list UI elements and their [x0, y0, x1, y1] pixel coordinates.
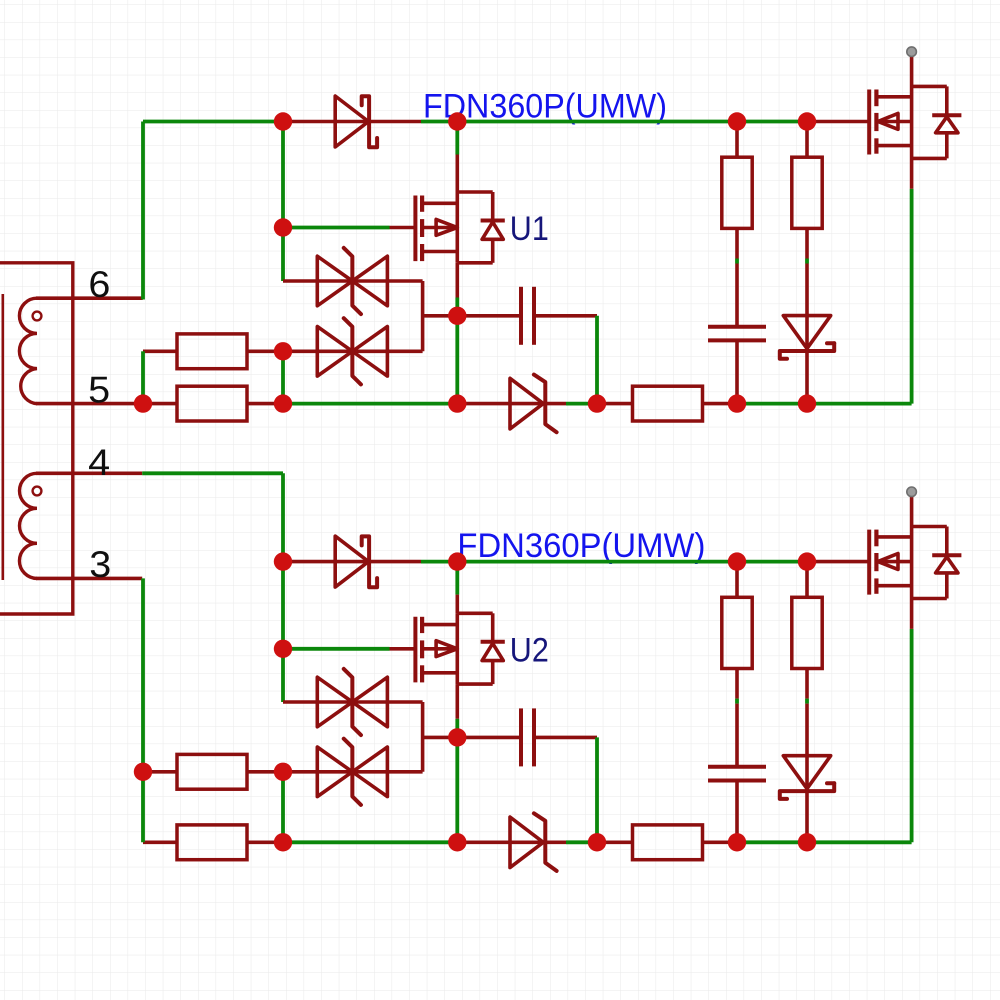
zener diode DZ2 cathode pin — [546, 840, 567, 844]
wire rail to resistor column 1 — [457, 120, 737, 124]
capacitor C2a — [521, 708, 534, 766]
polarity dot of secondary winding — [33, 487, 42, 496]
resistor R2b — [177, 825, 247, 860]
mosfet U2 designator — [510, 631, 549, 669]
capacitor C2b top pin — [735, 704, 739, 767]
zener diode DZ2 — [510, 813, 557, 871]
node TVS2b resistor junction — [274, 763, 292, 781]
power mosfet Q1 — [869, 56, 961, 189]
label FDN360P(UMW) part name 1 — [423, 88, 667, 126]
pin 3 label — [89, 543, 111, 585]
diode D1a pin (anode) — [283, 120, 335, 124]
wire gate node to mosfet U1 — [283, 226, 390, 230]
node rail2 main junction — [448, 552, 466, 570]
power mosfet Q1 gate pin — [807, 120, 869, 124]
node bottom row mid junction — [448, 833, 466, 851]
zener diode DZ1b top pin — [805, 264, 809, 316]
resistor R2b left pin — [143, 840, 177, 844]
node bottom row left junction — [274, 833, 292, 851]
capacitor C2b bottom pin — [735, 781, 739, 843]
resistor R2e — [792, 597, 822, 668]
wire bottom row to right riser — [807, 840, 912, 844]
mosfet U2 drain pin — [455, 595, 459, 614]
wire right riser vertical — [910, 629, 914, 842]
p-mosfet U2 — [415, 613, 504, 684]
resistor R2c right pin — [703, 840, 738, 844]
TVS Z2a right pin — [387, 700, 422, 704]
wire right riser vertical — [910, 189, 914, 404]
wire diode to net node — [421, 120, 457, 124]
bidirectional TVS Z1b — [317, 318, 387, 384]
short wire stub — [805, 259, 809, 264]
capacitor C1a right pin — [534, 314, 597, 318]
TVS Z1b right pin — [387, 349, 422, 353]
diode D2a pin (anode) — [283, 560, 335, 564]
resistor R1e — [792, 157, 822, 228]
zener diode DZ1 cathode pin — [546, 402, 567, 406]
mosfet U2 gate pin — [390, 647, 416, 651]
mosfet U1 source pin — [455, 263, 459, 298]
resistor R1d bottom pin — [735, 228, 739, 258]
resistor R1d top pin — [735, 122, 739, 158]
mosfet U1 drain pin — [455, 155, 459, 193]
node bottom row cap junction — [588, 833, 606, 851]
pin 4 lead — [36, 471, 142, 475]
wire rail resistor1 to resistor2 — [737, 120, 807, 124]
node bottom row at cap column — [728, 833, 746, 851]
wire TVS2 node down to bottom row — [281, 772, 285, 843]
schottky diode D1a — [335, 96, 377, 147]
resistor R2b right pin — [247, 840, 283, 844]
capacitor C1b — [708, 327, 766, 341]
mosfet Q2 drain terminal dot — [907, 487, 917, 497]
mosfet Q1 drain terminal dot — [907, 47, 917, 57]
resistor R2a right pin — [247, 770, 283, 774]
wire mosfet source to tap node — [455, 298, 459, 316]
capacitor C1b bottom pin — [735, 340, 739, 403]
resistor R1c right pin — [703, 402, 738, 406]
svg-text:3: 3 — [89, 543, 111, 585]
node bottom row left junction — [274, 394, 292, 412]
wire tap node down to bottom row — [455, 316, 459, 404]
resistor R1d — [722, 157, 752, 228]
wire diode to net node — [421, 560, 457, 564]
resistor R1b left pin — [143, 402, 177, 406]
wire bottom row cap column to zener column — [737, 840, 807, 844]
resistor R1b — [177, 386, 247, 421]
wire rail down to gate node — [281, 122, 285, 228]
transformer T1 outline box — [0, 263, 73, 614]
wire bottom row to right riser — [807, 402, 912, 406]
transformer primary winding (pins 6-5) — [19, 298, 37, 404]
node rail2 junction at input diode anode — [274, 552, 292, 570]
wire rail node down to mosfet U2 drain — [455, 562, 459, 595]
zener diode DZ2b top pin — [805, 704, 809, 756]
short wire stub — [735, 259, 739, 264]
TVS Z2b right pin — [387, 770, 422, 774]
wire capacitor right down to bottom row — [595, 316, 599, 404]
power mosfet Q2 gate pin — [807, 560, 869, 564]
capacitor C1a — [521, 287, 534, 345]
wire gate node down to TVS1 — [281, 228, 285, 282]
pin 4 label — [88, 441, 110, 483]
wire zener to cap node — [566, 402, 597, 406]
resistor R2e bottom pin — [805, 669, 809, 699]
wire gate node down to TVS1 — [281, 649, 285, 702]
resistor R2a — [177, 754, 247, 789]
resistor R1a — [177, 334, 247, 369]
node gate1 junction — [274, 218, 292, 236]
resistor R2c — [633, 825, 703, 860]
capacitor C2a right pin — [534, 736, 597, 740]
p-mosfet U1 — [415, 192, 504, 263]
capacitor C2a left pin — [457, 736, 521, 740]
TVS bus tap to source node — [423, 314, 458, 318]
wire TVS2 node down to bottom row — [281, 351, 285, 403]
resistor R1c — [633, 386, 703, 421]
wire pin4 down to rail — [281, 473, 285, 561]
node source-tap junction — [448, 728, 466, 746]
resistor R1a left pin — [143, 349, 177, 353]
node resistor R2a tap junction — [134, 763, 152, 781]
wire rail to resistor column 1 — [457, 560, 737, 564]
wire bottom row left node to mid node — [283, 840, 457, 844]
node bottom row mid junction — [448, 394, 466, 412]
label FDN360P(UMW) part name 2 — [457, 527, 705, 565]
node gate2 junction — [274, 640, 292, 658]
short wire stub — [805, 699, 809, 704]
wire rail resistor1 to resistor2 — [737, 560, 807, 564]
wire left column resistor Ra to pin5 node — [141, 351, 145, 403]
capacitor C2b — [708, 767, 766, 781]
pin 5 label — [88, 369, 110, 411]
mosfet U1 designator — [510, 210, 549, 248]
wire pin6 to top rail (vertical) — [141, 122, 145, 300]
zener diode DZ1b bottom pin — [805, 351, 809, 404]
TVS Z1a right pin — [387, 279, 422, 283]
svg-text:6: 6 — [88, 263, 110, 305]
transformer secondary winding (pins 4-3) — [19, 473, 37, 578]
wire pin4 horizontal — [142, 471, 283, 475]
node rail at resistor 2 — [798, 112, 816, 130]
resistor R2a left pin — [143, 770, 177, 774]
TVS Z1a left pin — [283, 279, 317, 283]
capacitor C1a left pin — [457, 314, 521, 318]
node bottom row cap junction — [588, 394, 606, 412]
schottky diode D2a — [335, 536, 377, 587]
zener diode DZ1 anode pin — [457, 402, 510, 406]
svg-text:FDN360P(UMW): FDN360P(UMW) — [457, 527, 705, 565]
pin 6 lead — [36, 296, 143, 300]
mosfet U2 source pin — [455, 684, 459, 719]
TVS Z2b left pin — [283, 770, 317, 774]
zener diode DZ2b bottom pin — [805, 791, 809, 842]
resistor R2d top pin — [735, 562, 739, 598]
bidirectional TVS Z2a — [317, 669, 387, 735]
node rail1 junction at input diode anode — [274, 112, 292, 130]
resistor R1c left pin — [597, 402, 633, 406]
pin 3 lead — [36, 577, 142, 581]
TVS bus vertical — [421, 281, 425, 351]
wire bottom row left node to mid node — [283, 402, 457, 406]
svg-text:U2: U2 — [510, 631, 549, 669]
node rail at resistor 1 — [728, 112, 746, 130]
resistor R1a right pin — [247, 349, 283, 353]
TVS Z1b left pin — [283, 349, 317, 353]
zener diode DZ1b (vertical) — [780, 316, 834, 359]
zener diode DZ2b (vertical) — [780, 756, 834, 799]
node bottom row at zener column — [798, 833, 816, 851]
bidirectional TVS Z1a — [317, 248, 387, 314]
wire pin3 vertical down — [141, 578, 145, 842]
zener diode DZ2 anode pin — [457, 840, 510, 844]
svg-text:U1: U1 — [510, 210, 549, 248]
wire rail down to gate node — [281, 562, 285, 649]
node rail at resistor 1 — [728, 552, 746, 570]
pin 6 label — [88, 263, 110, 305]
TVS Z2a left pin — [283, 700, 317, 704]
capacitor C1b top pin — [735, 264, 739, 327]
wire top rail left segment — [143, 120, 283, 124]
wire tap node down to bottom row — [455, 737, 459, 842]
node bottom row at cap column — [728, 394, 746, 412]
TVS bus vertical — [421, 702, 425, 772]
pin 5 lead — [36, 402, 143, 406]
short wire stub — [735, 699, 739, 704]
wire capacitor right down to bottom row — [595, 737, 599, 842]
diode D2a pin (cathode) — [370, 560, 421, 564]
resistor R2d — [722, 597, 752, 668]
bidirectional TVS Z2b — [317, 739, 387, 805]
svg-text:5: 5 — [88, 369, 110, 411]
svg-text:4: 4 — [88, 441, 110, 483]
mosfet U1 gate pin — [390, 226, 416, 230]
power mosfet Q2 — [869, 496, 961, 629]
wire mosfet source to tap node — [455, 719, 459, 738]
node source-tap junction — [448, 307, 466, 325]
zener diode DZ1 — [510, 375, 557, 433]
diode D1a pin (cathode) — [370, 120, 421, 124]
node rail1 main junction — [448, 112, 466, 130]
resistor R2d bottom pin — [735, 669, 739, 699]
resistor R2c left pin — [597, 840, 633, 844]
node TVS1b resistor junction — [274, 342, 292, 360]
wire bottom row cap column to zener column — [737, 402, 807, 406]
resistor R1e top pin — [805, 122, 809, 158]
transformer core line — [1, 294, 4, 580]
node pin5 junction — [134, 394, 152, 412]
TVS bus tap to source node — [423, 736, 458, 740]
polarity dot of primary winding — [33, 312, 42, 321]
wire gate node to mosfet U2 — [283, 647, 390, 651]
resistor R1e bottom pin — [805, 228, 809, 258]
wire zener to cap node — [566, 840, 597, 844]
node rail at resistor 2 — [798, 552, 816, 570]
node bottom row at zener column — [798, 394, 816, 412]
wire rail node down to mosfet U1 drain — [455, 122, 459, 155]
resistor R1b right pin — [247, 402, 283, 406]
resistor R2e top pin — [805, 562, 809, 598]
